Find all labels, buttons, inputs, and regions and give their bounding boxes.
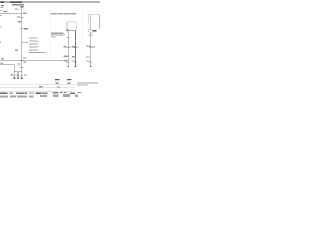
label right of wire A below branch [23,62,26,63]
junction label right [23,13,27,14]
pin1 annotation row2 [51,35,65,36]
pin2 tick b [74,47,77,49]
wire into motor [90,15,92,29]
tick C1 label left [17,16,20,17]
starter box M [88,15,99,29]
ground point label G2 [67,79,72,80]
label above branch at left edge [1,58,4,59]
header text left [0,2,4,3]
M tick c label left [87,60,90,61]
M terminal end [90,66,92,67]
M tick b [89,46,92,48]
pin1 tick a [67,37,70,39]
branch label left [23,57,27,58]
fuse stub [15,9,20,11]
arrow to legend [22,42,27,44]
dashed separator mid [50,10,52,58]
wire A vertical [21,7,23,71]
motor circle G [89,29,93,33]
left margin mark 1 [0,15,2,16]
table rule 1 [0,84,76,86]
wire K1 pin1 [67,31,69,67]
fuse stub upper [15,7,17,9]
label above lower wire at left edge [1,63,4,64]
ground note text [77,83,98,84]
pin1 annotation row3 [51,36,56,37]
table cell text b [57,86,60,87]
tick low label left [18,63,21,64]
legend note block [29,37,46,53]
pin1 annotation row1 [51,33,64,34]
left margin mark 3 [0,42,1,43]
connector tick C1 [20,17,23,19]
M tick b label left [86,45,89,46]
splice bar [14,71,22,73]
header toolbar bar [0,1,100,3]
fuse label text line [12,4,24,6]
header text title [10,2,22,3]
pin2 label above tick c [72,56,76,57]
tick S2 label right [24,28,28,30]
wire K1 pin2 [74,31,76,67]
under-motor label [89,35,94,36]
wire M pin [90,33,92,67]
pin1 tick b label left [63,46,66,47]
pin1 tick b label right [69,47,71,48]
ground area label right [24,74,27,75]
ground stub 2 [17,72,19,78]
node label top-left line2 [0,7,3,8]
table rule 3 [0,91,72,93]
ground point box G2 [67,81,70,85]
pin2 tick c label left [72,60,75,61]
pin1 tick b [67,47,70,49]
wire label mid [18,21,21,22]
ground area label left [11,74,14,75]
ground stub 3 [21,72,23,78]
pin2 tick c [74,62,77,64]
table cell text a [39,86,43,87]
branch label right [64,56,69,57]
motor label [93,30,96,31]
junction dot [21,60,23,62]
relay box K1 [67,22,76,31]
terminal 30 label [20,6,23,7]
node label top-left line3 [0,10,2,11]
node label top-left line1 [1,5,4,6]
pin1 terminal end [67,66,69,67]
branch wire to right section [0,60,68,62]
table rule 2 [0,87,75,89]
M label above tick c [86,56,90,57]
section title right [51,13,58,14]
pin2 tick b label right [77,47,79,48]
pin2 tick b label left [72,46,75,47]
ground point label G1 [55,79,60,80]
footer gray text row [0,94,78,98]
pin1 tick c label left [64,60,67,61]
pin1 tick c [67,62,70,64]
ground stub 1 [13,72,15,78]
connector tick low on wire A [20,67,23,69]
lower wire from left edge [0,64,14,66]
M tick b label right [92,46,95,47]
footer dark text row [0,92,81,94]
pin2 terminal end [75,66,77,67]
ground point box G1 [55,81,58,85]
left margin mark 2 [0,26,2,27]
relay terminal mark [67,30,69,32]
wire label 0.35 above horizontal wire [4,11,7,12]
dashed separator right [82,10,84,50]
wire horizontal top [0,12,22,14]
wire label 0.35 lower [15,50,18,51]
M tick c [89,62,92,64]
connector tick S2 [20,28,23,30]
ground point G1 inner mark [56,83,58,84]
